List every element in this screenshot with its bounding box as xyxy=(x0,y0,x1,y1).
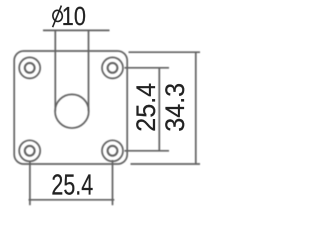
screw hole bottom-right inner xyxy=(108,146,118,156)
svg-text:25.4: 25.4 xyxy=(130,83,161,132)
svg-text:25.4: 25.4 xyxy=(51,169,93,201)
screw hole top-right inner xyxy=(108,63,118,73)
screw hole bottom-right outer xyxy=(102,140,123,161)
bottom 25.4 left extension line (from bottom-left screw) xyxy=(29,161,31,206)
dia10 right extension line xyxy=(88,30,90,111)
right 25.4 bottom extension line (from bottom-right screw) xyxy=(125,150,170,152)
bottom 25.4 right extension line (from bottom-right screw) xyxy=(112,160,114,205)
phi symbol of dia10 label xyxy=(52,6,63,28)
dia10 left extension line xyxy=(54,30,56,111)
plate outline xyxy=(14,51,127,164)
screw hole bottom-left outer xyxy=(19,140,40,161)
bottom 25.4 dimension line xyxy=(29,199,115,201)
screw hole top-right outer xyxy=(102,57,123,78)
right 25.4 dimension line xyxy=(158,68,160,151)
svg-text:10: 10 xyxy=(62,2,86,31)
screw hole top-left outer xyxy=(19,57,40,78)
34.3 bottom extension line (plate bottom) xyxy=(131,163,201,165)
34.3 top extension line (plate top) xyxy=(129,51,201,53)
dia10 dimension line (top) xyxy=(43,29,110,31)
center hole (diameter 10) xyxy=(55,94,89,128)
screw hole top-left inner xyxy=(25,63,35,73)
svg-text:34.3: 34.3 xyxy=(159,83,190,132)
screw hole bottom-left inner xyxy=(25,146,35,156)
34.3 dimension line xyxy=(195,52,197,164)
right 25.4 top extension line (from top-right screw) xyxy=(125,67,170,69)
